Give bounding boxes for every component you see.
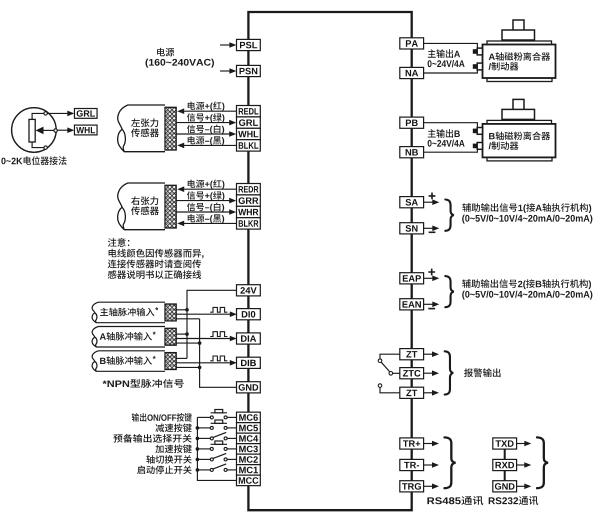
wire 信号-白 to WHL bbox=[176, 133, 230, 135]
wire ZTC bbox=[393, 372, 400, 374]
terminal REDL bbox=[237, 106, 261, 117]
push button output ON/OFF (MC6) bbox=[197, 416, 210, 418]
wire gland3 bottom to GND bus bbox=[176, 366, 199, 368]
switch common bus bbox=[197, 417, 236, 480]
B-axis pulse input cylinder bbox=[92, 351, 165, 372]
terminal TXD bbox=[493, 438, 517, 449]
wire gland2 top to 24V bus bbox=[176, 333, 187, 335]
wire gland3 mid to DI bbox=[176, 362, 231, 364]
label RS485通讯 bbox=[427, 496, 483, 505]
wire to PSL bbox=[220, 44, 230, 46]
terminal WHR bbox=[237, 206, 261, 217]
right sensor label 右张力传感器 bbox=[131, 196, 158, 205]
brace RS232 bbox=[537, 437, 548, 488]
terminal PSL bbox=[237, 39, 261, 50]
arrow TR- bbox=[424, 464, 433, 466]
terminal ZTC bbox=[400, 368, 424, 379]
label 主输出B 0~24V/4A bbox=[428, 129, 460, 138]
relay contact circles bbox=[378, 359, 382, 363]
push button accelerate (MC3) bbox=[197, 448, 210, 450]
terminal PB bbox=[400, 117, 424, 128]
terminal DIA bbox=[237, 333, 261, 344]
terminal EAP bbox=[400, 273, 424, 284]
left sensor label 左张力传感器 bbox=[131, 118, 158, 127]
relay contact ZT upper bbox=[380, 354, 400, 359]
terminal TR- bbox=[400, 459, 424, 470]
wire 电源+红 to REDL bbox=[183, 110, 236, 112]
arrow TRG bbox=[424, 485, 433, 487]
label power supply 电源 (160~240VAC) bbox=[157, 48, 174, 57]
terminal PA bbox=[400, 38, 424, 49]
terminal WHL bbox=[237, 128, 261, 139]
label aux output signal 1 bbox=[462, 203, 591, 213]
right sensor cable gland bbox=[165, 185, 176, 228]
clutch B轴磁粉离合器/制动器 bbox=[513, 99, 524, 110]
label 0~2K pot connection bbox=[1, 156, 66, 165]
wire gland1 bottom to GND bus bbox=[176, 318, 199, 320]
terminal NA bbox=[400, 67, 424, 78]
arrow RXD bbox=[517, 464, 526, 466]
wire PB to clutch B pin1 bbox=[424, 123, 477, 129]
potentiometer circle bbox=[12, 108, 57, 153]
wire 信号-白 to WHR bbox=[176, 211, 230, 213]
pot top lead bbox=[32, 113, 44, 119]
wire pot to WHL bbox=[57, 129, 68, 131]
terminal GRL bbox=[237, 117, 261, 128]
left sensor cable gland bbox=[165, 107, 176, 150]
wire 电源-黑 to BLKR bbox=[183, 222, 236, 224]
brace RS485 bbox=[445, 437, 456, 488]
wire 电源+红 to REDR bbox=[183, 188, 236, 190]
terminal GND bbox=[237, 382, 261, 393]
label 报警输出 bbox=[464, 368, 500, 377]
terminal ZT upper bbox=[400, 349, 424, 360]
wire labels right sensor bbox=[188, 180, 225, 190]
wire gland2 bottom to GND bus bbox=[176, 342, 199, 344]
left tension sensor body bbox=[118, 105, 165, 152]
brace alarm output bbox=[445, 351, 454, 394]
push button decelerate (MC5) bbox=[197, 427, 210, 429]
terminal TRG bbox=[400, 481, 424, 492]
brace aux output 2 bbox=[445, 276, 454, 307]
arrow ZT2 bbox=[424, 392, 433, 394]
potentiometer resistor element bbox=[29, 119, 35, 142]
wire gland2 mid to DI bbox=[176, 338, 231, 340]
arrow EAP + bbox=[424, 277, 433, 279]
wire NA to clutch A pin2 bbox=[424, 68, 477, 73]
A-axis pulse input cylinder bbox=[92, 327, 165, 348]
terminal ZT lower bbox=[400, 387, 424, 398]
terminal 24V bbox=[237, 285, 261, 296]
wire pot to GRL bbox=[47, 112, 68, 114]
arrow TR+ bbox=[424, 443, 433, 445]
wire 信号+绿 to GRL bbox=[176, 122, 230, 124]
relay contact ZT lower bbox=[380, 387, 400, 392]
toggle switch start/stop (MC1) bbox=[197, 469, 210, 471]
toggle switch standby output select (MC4) bbox=[197, 437, 210, 439]
terminal GRR bbox=[237, 195, 261, 206]
terminal BLKR bbox=[237, 218, 261, 229]
terminal DIB bbox=[237, 357, 261, 368]
terminal TR+ bbox=[400, 438, 424, 449]
toggle switch axis switch (MC2) bbox=[197, 458, 210, 460]
right tension sensor body bbox=[118, 183, 165, 230]
box WHL bbox=[74, 125, 97, 135]
label aux output signal 2 bbox=[462, 279, 591, 289]
arrow EAN - bbox=[424, 303, 433, 305]
note text 注意 bbox=[108, 238, 129, 247]
terminal REDR bbox=[237, 184, 261, 195]
terminal BLKL bbox=[237, 140, 261, 151]
terminal SA bbox=[400, 197, 424, 208]
wire 信号+绿 to GRR bbox=[176, 200, 230, 202]
wire to PSN bbox=[220, 70, 230, 72]
RS232 connecting wires bbox=[504, 449, 506, 459]
wire labels left sensor bbox=[188, 102, 225, 112]
wire gland1 top to 24V bus bbox=[176, 309, 187, 311]
pot wiper arrow bbox=[44, 129, 57, 131]
controller frame bbox=[248, 12, 411, 510]
main-axis pulse input cylinder bbox=[92, 302, 165, 323]
wire 电源-黑 to BLKL bbox=[183, 144, 236, 146]
terminal stack MC6..MCC bbox=[237, 412, 261, 423]
label RS232通讯 bbox=[489, 496, 539, 505]
arrow ZTC bbox=[424, 372, 433, 374]
terminal RXD bbox=[493, 459, 517, 470]
arrow GND232 bbox=[517, 485, 526, 487]
wire PA to clutch A pin1 bbox=[424, 43, 477, 49]
wire gland1 mid to DI bbox=[176, 313, 231, 315]
terminal DI0 bbox=[237, 309, 261, 320]
terminal GND (RS232) bbox=[493, 481, 517, 492]
brace aux output 1 bbox=[445, 200, 454, 231]
bus wire to GND bbox=[200, 319, 237, 388]
arrow ZT1 bbox=[424, 353, 433, 355]
arrow SN - bbox=[424, 227, 433, 229]
terminal EAN bbox=[400, 299, 424, 310]
arrow SA + bbox=[424, 201, 433, 203]
pot bottom lead bbox=[32, 142, 44, 148]
label NPN pulse signal bbox=[103, 379, 184, 388]
terminal PSN bbox=[237, 65, 261, 76]
wire gland3 top to 24V bus bbox=[176, 357, 187, 359]
arrow TXD bbox=[517, 443, 526, 445]
relay switch arm bbox=[381, 362, 389, 371]
box GRL bbox=[74, 109, 97, 119]
clutch A轴磁粉离合器/制动器 bbox=[513, 20, 524, 31]
terminal SN bbox=[400, 223, 424, 234]
terminal NB bbox=[400, 147, 424, 158]
bus wire to 24V bbox=[187, 290, 237, 358]
label 主输出A 0~24V/4A bbox=[428, 49, 460, 58]
wire NB to clutch B pin2 bbox=[424, 147, 477, 152]
